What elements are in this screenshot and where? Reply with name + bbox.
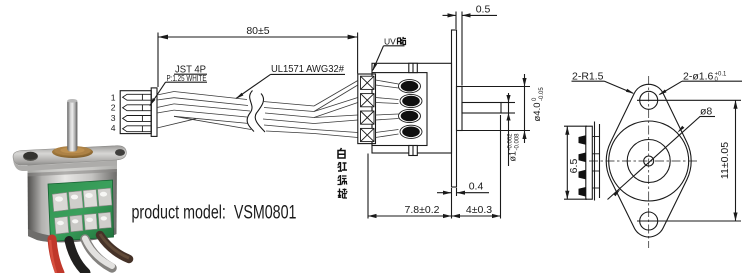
dimension 7.8±0.2 [368, 154, 452, 219]
wire color note (vertical Chinese) [338, 148, 348, 198]
mounting hole top [640, 91, 658, 109]
cable break symbol [247, 91, 265, 133]
solder pads row 1 [52, 188, 112, 212]
top crimp tab [409, 63, 418, 72]
svg-text:-0.05: -0.05 [539, 87, 545, 101]
label 2-ø1.6 +0.1/0 [658, 70, 742, 95]
product photo (stepper motor) [13, 99, 129, 273]
mounting hole bottom [640, 212, 658, 230]
mounting flange with ears [13, 146, 126, 166]
motor body circle ø8 [609, 121, 689, 201]
svg-text:ø1: ø1 [508, 151, 518, 162]
terminal block with crimp contacts [358, 74, 376, 144]
solder pads row 2 [55, 212, 112, 234]
can bottom dark rim [28, 227, 117, 242]
svg-text:2-R1.5: 2-R1.5 [572, 70, 604, 82]
label UL1571 AWG32# [271, 63, 346, 75]
dimension 0.4 [437, 181, 489, 196]
dimension 0.5 [443, 4, 498, 86]
svg-text:product model: VSM0801: product model: VSM0801 [132, 202, 297, 224]
bottom crimp tab [409, 146, 418, 156]
PCB edge profile view [564, 122, 600, 201]
shaft (side view) [462, 103, 501, 114]
pilot boss [457, 87, 463, 131]
pad solder highlights [55, 192, 107, 225]
dimension ø1 [501, 93, 521, 166]
svg-text:6.5: 6.5 [568, 159, 580, 174]
svg-text:2: 2 [111, 103, 116, 113]
svg-text:UL1571 AWG32#: UL1571 AWG32# [271, 63, 344, 75]
svg-text:7.8±0.2: 7.8±0.2 [405, 204, 440, 216]
svg-text:-0.008: -0.008 [515, 133, 521, 151]
ear hole right [115, 149, 125, 156]
label JST 4P [166, 64, 208, 83]
wire fan-out to motor terminals [314, 81, 358, 138]
wires: red black white brown [52, 239, 60, 273]
svg-text:4: 4 [111, 123, 116, 133]
dimension 80±5 [158, 25, 358, 87]
label UV glue [372, 37, 406, 72]
svg-text:2-ø1.6: 2-ø1.6 [683, 70, 714, 82]
svg-text:UV: UV [384, 37, 396, 47]
shaft circle [644, 156, 654, 166]
front view flange silhouette [606, 84, 691, 237]
dimension ø4.0 [462, 74, 545, 143]
connector J1 pins [123, 94, 152, 131]
wire bundle left segment [157, 92, 251, 130]
can top light band [28, 160, 118, 174]
svg-text:0.4: 0.4 [469, 181, 484, 193]
flange front edge [13, 159, 117, 171]
dimension 11±0.05 [637, 100, 741, 221]
leader to connector [149, 82, 165, 106]
green PCB [48, 180, 114, 242]
pin numbers 1-4 [111, 92, 116, 133]
ear hole left [23, 152, 38, 161]
solder bumps on PCB [579, 135, 586, 196]
label ø8 with diameter leader [608, 106, 716, 200]
pilot boss circle [627, 140, 670, 183]
label 2-R1.5 [572, 70, 635, 93]
brass collar [52, 146, 93, 158]
can edge behind PCB [592, 122, 599, 201]
front view centerlines [589, 76, 697, 248]
dimension 4±0.3 [452, 115, 501, 219]
motor can body [28, 160, 118, 243]
svg-text:4±0.3: 4±0.3 [466, 204, 492, 216]
wire bundle right segment [263, 102, 314, 134]
svg-text:1: 1 [111, 92, 116, 102]
PCB board edge [586, 126, 593, 199]
svg-text:11±0.05: 11±0.05 [719, 142, 731, 179]
motor can front face [372, 73, 427, 146]
svg-text:0.5: 0.5 [476, 4, 491, 16]
svg-text:P:1.25 WHITE: P:1.25 WHITE [167, 74, 207, 83]
dimension 6.5 [564, 126, 587, 199]
svg-text:80±5: 80±5 [246, 25, 269, 37]
svg-text:3: 3 [111, 113, 116, 123]
solder joint wires inside motor [376, 80, 399, 138]
mounting flange plate (side view) [452, 30, 457, 187]
shaft [67, 100, 77, 152]
motor M1 outer stator profile (side view) [372, 63, 452, 153]
solder joints (4 blobs) [399, 80, 423, 139]
svg-text:ø8: ø8 [700, 106, 712, 118]
svg-text:-0.002: -0.002 [508, 133, 514, 151]
svg-text:ø4.0: ø4.0 [532, 102, 543, 121]
connector J1 housing [120, 88, 157, 136]
leader to wire bundle [236, 74, 271, 99]
